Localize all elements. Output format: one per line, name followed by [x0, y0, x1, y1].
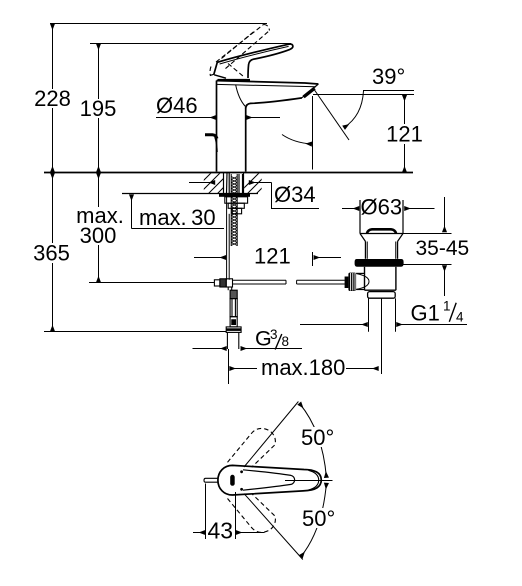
svg-text:4: 4	[456, 310, 464, 325]
svg-text:39°: 39°	[372, 64, 405, 89]
svg-text:G1: G1	[411, 301, 440, 326]
svg-text:300: 300	[80, 223, 117, 248]
svg-text:35-45: 35-45	[416, 237, 470, 260]
svg-text:Ø63: Ø63	[361, 195, 403, 220]
svg-text:50°: 50°	[302, 506, 335, 531]
svg-text:121: 121	[254, 244, 291, 269]
svg-text:50°: 50°	[301, 425, 334, 450]
svg-text:228: 228	[34, 86, 71, 111]
svg-text:Ø34: Ø34	[274, 182, 316, 207]
svg-text:43: 43	[208, 518, 234, 544]
svg-text:1: 1	[443, 299, 451, 314]
svg-text:3: 3	[270, 327, 278, 342]
svg-text:195: 195	[80, 96, 117, 121]
svg-text:max. 30: max. 30	[139, 205, 216, 230]
svg-text:8: 8	[282, 334, 290, 349]
svg-text:Ø46: Ø46	[156, 93, 198, 118]
svg-text:365: 365	[33, 241, 70, 266]
svg-text:max.180: max.180	[261, 355, 345, 380]
svg-text:121: 121	[386, 122, 423, 147]
